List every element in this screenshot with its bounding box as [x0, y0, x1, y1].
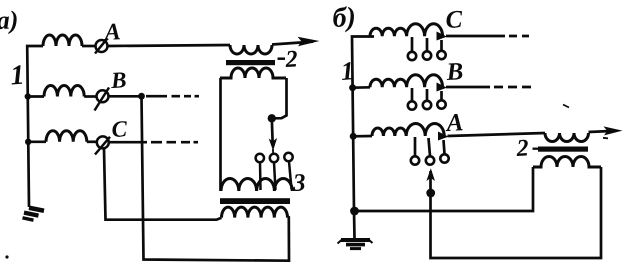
- label 3 (a): [292, 174, 305, 191]
- transformer 2 primary winding (b): [545, 133, 589, 142]
- wire secondary right bottom loop (b): [431, 167, 602, 258]
- wire lower winding to C tap (a): [104, 149, 222, 220]
- wire output arrow phase A (b): [589, 131, 615, 132]
- tap leads C (b): [411, 37, 414, 52]
- dashed wire C (a): [151, 141, 198, 144]
- speck bottom left: [5, 255, 8, 258]
- tap lead 3 (a): [289, 162, 292, 190]
- junction dot wiper (b): [426, 189, 435, 198]
- contact C (a): [97, 136, 109, 148]
- wire loop left side 2-3 (a): [219, 78, 222, 191]
- wire bus to winding B (b): [353, 86, 370, 89]
- contact A (a): [96, 40, 108, 52]
- junction dot bus-B (b): [349, 84, 356, 91]
- dashed wire C (b): [509, 35, 529, 38]
- tap lead 2 (a): [274, 163, 276, 191]
- wire contact B to junction (a): [109, 95, 141, 98]
- wire bus to winding A (b): [353, 135, 372, 138]
- tapped winding phase C (b): [370, 24, 443, 37]
- junction dot bus bottom (b): [350, 207, 359, 216]
- node 1 label (a): [10, 65, 22, 84]
- junction dot B branch (a): [138, 93, 145, 100]
- speck right middle: [563, 105, 569, 108]
- wire C output (b): [446, 35, 505, 38]
- node 1 label (b): [341, 62, 352, 80]
- wire bus 1 vertical (b): [352, 37, 374, 239]
- dashed wire B (a): [146, 95, 199, 98]
- contact B (a): [97, 90, 109, 102]
- core bar transformer 2 (b): [538, 147, 588, 152]
- dashed wire B (b): [494, 86, 531, 89]
- wire secondary right down to wiper (a): [272, 78, 287, 118]
- wire secondary left to bus (b): [354, 167, 533, 211]
- tapped winding phase B (b): [370, 75, 443, 88]
- ground (b): [341, 238, 370, 242]
- core bar transformer 3 (a): [220, 198, 290, 204]
- label B (a): [110, 72, 125, 88]
- label A (a): [103, 23, 120, 40]
- tap lead 1 (a): [259, 163, 262, 191]
- wiper arrow up to tap (b): [426, 168, 435, 181]
- wire coilC to contact (a): [87, 140, 97, 143]
- transformer 2 secondary winding (b): [533, 157, 601, 168]
- wire coilB to contact (a): [84, 95, 96, 98]
- label a): [0, 10, 17, 34]
- ground (a): [29, 208, 44, 211]
- label C (b): [446, 11, 463, 29]
- autotransformer 3 tapped winding (a): [221, 179, 292, 192]
- core bar transformer 2 (a): [226, 60, 275, 65]
- junction wedge B (b): [437, 83, 448, 92]
- wire output arrow phase A (a): [272, 42, 313, 45]
- wire B output (b): [446, 86, 490, 89]
- wire bus to coil C (a): [28, 140, 46, 143]
- wire coilA to contact (a): [82, 45, 96, 48]
- wire bus 1 vertical (a): [27, 46, 43, 207]
- label A (b): [445, 114, 463, 131]
- label b): [333, 6, 355, 33]
- junction wedge A (b): [438, 132, 449, 141]
- inductor phase B (a): [44, 86, 84, 97]
- label B (b): [446, 63, 463, 80]
- transformer 2 secondary winding (a): [220, 68, 286, 78]
- label C (a): [112, 121, 128, 137]
- junction dot bus-C (a): [25, 139, 31, 145]
- transformer 3 lower winding (a): [222, 207, 288, 218]
- inductor phase A (a): [43, 35, 82, 46]
- junction wedge C (b): [437, 32, 448, 41]
- wire A to transformer 2 (b): [448, 133, 546, 136]
- label -2 (a): [278, 57, 286, 60]
- junction dot bus-B (a): [25, 93, 31, 99]
- wire lower winding right to bottom loop (a): [142, 97, 290, 261]
- inductor phase C (a): [46, 131, 87, 142]
- tapped winding phase A (b): [372, 124, 444, 137]
- wiper arrow down to tap (a): [270, 118, 274, 142]
- wire phase A to transformer 2 (a): [108, 45, 231, 46]
- label 2- (b): [516, 140, 529, 156]
- tap leads A (b): [414, 137, 417, 156]
- junction dot wiper (a): [268, 114, 276, 122]
- junction dot bus-A (b): [350, 133, 357, 140]
- transformer 2 primary winding (a): [230, 45, 272, 54]
- wire bus to coil B (a): [28, 95, 45, 98]
- tap leads B (b): [411, 88, 414, 102]
- wire contact C right (a): [109, 141, 147, 144]
